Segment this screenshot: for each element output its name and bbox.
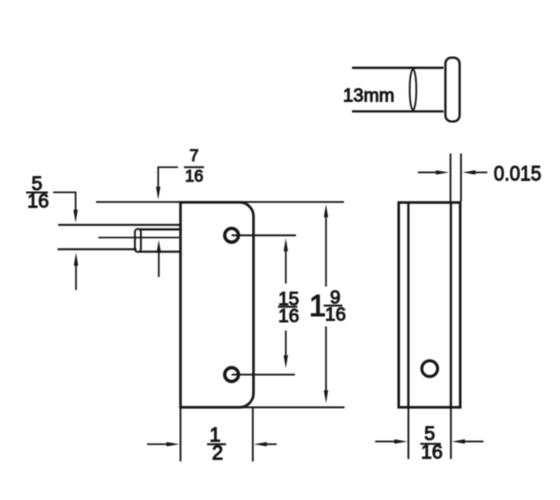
pin tip top line	[58, 224, 180, 226]
svg-text:16: 16	[325, 304, 346, 325]
pin collar bottom line	[139, 251, 181, 253]
dimension 7/16 leader	[158, 167, 178, 188]
pin tip bottom line	[58, 248, 137, 250]
dimension 1/2 right arrow	[254, 442, 277, 446]
lower hole leader line	[232, 374, 295, 376]
dimension 0.015 extension lines	[451, 154, 462, 202]
svg-text:16: 16	[27, 190, 49, 212]
svg-text:16: 16	[421, 442, 443, 464]
dimension 0.015 right arrow	[463, 170, 488, 174]
bushing body bottom line	[352, 110, 444, 112]
dimension 5/16 right right arrow	[452, 439, 484, 443]
dimension 15/16 down arrow	[284, 355, 288, 368]
svg-text:16: 16	[278, 305, 299, 326]
dimension 5/16 left up arrow	[74, 253, 78, 290]
upper hole leader line	[232, 234, 296, 236]
pin collar left face	[135, 229, 141, 252]
svg-text:7: 7	[190, 147, 199, 165]
pin centerline	[98, 237, 179, 239]
dimension 1/2 left extension line	[180, 407, 182, 461]
dimension 15/16 line	[285, 250, 287, 358]
dimension 1-9/16 up arrow	[324, 204, 328, 217]
lower hole	[225, 368, 239, 382]
pin center up arrow	[157, 240, 161, 277]
svg-text:2: 2	[212, 443, 223, 465]
svg-text:13mm: 13mm	[343, 85, 394, 106]
dimension 1/2 right extension line	[252, 407, 254, 461]
dimension 5/16 left down arrow	[73, 210, 77, 223]
dimension 15/16 up arrow	[284, 238, 288, 251]
label 15/16	[278, 288, 299, 326]
label 13mm	[343, 85, 394, 106]
label 0.015	[494, 162, 542, 186]
label 5/16 left	[26, 173, 49, 213]
dimension 5/16 right extension lines	[408, 407, 451, 459]
label 5/16 right	[420, 423, 442, 463]
dimension 5/16 right left arrow	[375, 439, 407, 443]
label 7/16	[184, 147, 204, 185]
label 1/2	[207, 425, 226, 465]
dimension 1-9/16 down arrow	[324, 390, 328, 403]
side view right inner line	[450, 204, 452, 407]
bushing crimp lens	[410, 69, 417, 110]
pin collar top line	[139, 228, 181, 230]
bushing flange	[445, 58, 459, 122]
svg-text:0.015: 0.015	[494, 162, 542, 186]
upper hole	[225, 228, 239, 242]
dimension 5/16 left leader	[53, 192, 76, 210]
label 1 9/16	[309, 286, 346, 324]
plate outline	[181, 202, 254, 407]
dimension 1/2 left arrow	[147, 442, 180, 446]
side view outline	[399, 203, 461, 408]
bushing body top line	[352, 67, 444, 69]
top extension line	[96, 201, 344, 203]
bottom extension line	[181, 406, 345, 408]
svg-text:16: 16	[185, 168, 203, 186]
dimension 7/16 down arrow	[156, 187, 160, 200]
dimension 1-9/16 line	[325, 216, 327, 393]
side view hole	[422, 361, 438, 377]
side view left inner line	[407, 204, 409, 407]
svg-text:1: 1	[309, 289, 326, 323]
dimension 0.015 left arrow	[418, 170, 449, 174]
